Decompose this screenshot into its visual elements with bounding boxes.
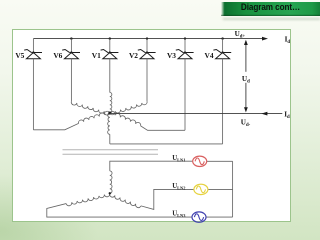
svg-text:V5: V5: [15, 51, 24, 60]
wire ULN1 source to right bus: [207, 160, 233, 162]
winding L5 (lower-left, to V5): [79, 111, 110, 123]
thyristor V6: [62, 50, 80, 59]
measurement arrow Ud (double-headed): [244, 40, 248, 113]
wire anode V5 from bus: [32, 39, 34, 53]
transformer core line 1: [63, 149, 159, 151]
title bar: [221, 2, 320, 16]
winding L4 (bottom, to V4): [108, 113, 110, 134]
wire phase 1 to source ULN1: [110, 161, 193, 171]
svg-text:Ud+: Ud+: [235, 30, 246, 40]
source ULN3 (blue AC source): [192, 212, 206, 222]
transformer core line 2: [63, 153, 159, 155]
wire V5 to lower-left winding: [33, 123, 78, 129]
thyristor V5: [24, 50, 42, 59]
wire cathode V6 down: [70, 59, 72, 102]
thyristor V3: [176, 50, 194, 59]
wire cathode V5 down: [32, 59, 34, 130]
thyristor V4: [213, 50, 231, 59]
node primary neutral: [109, 192, 111, 194]
source ULN2 (yellow AC source): [194, 184, 208, 194]
junction dot on top bus at V2: [146, 37, 148, 39]
wire cathode V2 down: [146, 59, 148, 102]
arrow Id direction on bottom bus: [261, 112, 267, 116]
wire right return bus: [232, 161, 234, 217]
wire V4 to bottom winding: [110, 143, 223, 145]
wire anode V3 from bus: [184, 39, 186, 53]
winding L6 (upper-left, to V6): [71, 101, 110, 115]
svg-text:V4: V4: [205, 51, 214, 60]
node star neutral point: [108, 112, 111, 115]
wire anode V6 from bus: [70, 39, 72, 53]
wire anode V2 from bus: [146, 39, 148, 53]
svg-text:ULN3: ULN3: [172, 211, 186, 219]
thyristor V1: [101, 50, 119, 59]
svg-text:V2: V2: [129, 51, 138, 60]
svg-text:Id: Id: [284, 110, 290, 120]
source ULN1 (red AC source): [193, 156, 207, 166]
primary winding A (vertical): [110, 171, 112, 193]
svg-text:ULN1: ULN1: [172, 155, 185, 163]
svg-text:V3: V3: [167, 51, 176, 60]
wire bottom winding tail: [109, 134, 111, 144]
svg-text:ULN2: ULN2: [172, 183, 185, 191]
junction dot on top bus at V1: [109, 37, 111, 39]
thyristor V2: [138, 50, 156, 59]
wire phase 3 to source ULN3: [47, 204, 192, 218]
wire phase 2 to source ULN2: [141, 189, 194, 209]
winding L3 (lower-right, to V3): [110, 111, 141, 125]
primary winding B (down-left): [66, 193, 110, 205]
wire anode V1 from bus: [109, 39, 111, 53]
svg-text:Ud-: Ud-: [241, 119, 251, 129]
primary winding C (down-right): [110, 193, 141, 207]
junction dot on top bus at V4: [221, 37, 223, 39]
wire bottom DC bus Ud- from neutral: [110, 113, 282, 115]
arrow Id direction on top bus: [262, 37, 268, 41]
slide content frame: [12, 29, 291, 222]
wire ULN2 source to right bus: [208, 188, 233, 190]
wire ULN3 source to right bus: [206, 216, 233, 218]
junction dot on top bus at V3: [184, 37, 186, 39]
svg-text:V1: V1: [92, 51, 101, 60]
wire cathode V4 down: [222, 59, 224, 144]
wire cathode V3 down: [184, 59, 186, 131]
svg-text:V6: V6: [53, 51, 62, 60]
junction dot on top bus at V6: [70, 37, 72, 39]
winding L2 (upper-right, to V2): [110, 101, 147, 114]
svg-text:Id: Id: [285, 35, 291, 45]
wire cathode V1 down: [109, 59, 111, 93]
wire V3 to lower-right winding: [141, 126, 185, 130]
wire anode V4 from bus: [222, 39, 224, 53]
wire top DC bus Ud+: [33, 38, 262, 40]
winding L1 (top, to V1): [110, 93, 112, 114]
